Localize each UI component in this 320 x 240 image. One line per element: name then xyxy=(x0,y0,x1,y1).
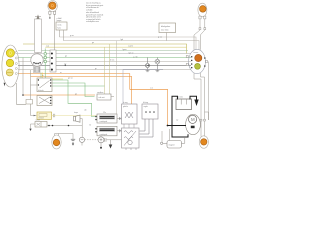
wire pickup to magneto box xyxy=(107,139,122,141)
tail lamp pin dots xyxy=(191,56,206,68)
tail lamp bottom exits xyxy=(194,62,209,137)
starter relay xyxy=(167,141,182,149)
tail lamp left squares xyxy=(186,56,207,66)
wire y65.3 dark xyxy=(18,64,191,66)
wire y69.6 gray xyxy=(18,69,191,71)
svg-text:gleichr: gleichr xyxy=(123,105,128,108)
headlamp shell xyxy=(48,1,58,12)
relay terminal circle xyxy=(163,142,167,144)
svg-text:12v: 12v xyxy=(103,112,106,114)
junction dot orange start xyxy=(22,94,24,96)
ground mid bottom xyxy=(110,140,112,145)
connector ticks right of pickup xyxy=(104,138,106,142)
svg-text:lampe: lampe xyxy=(57,20,62,22)
green g1 to coil 1 xyxy=(52,80,96,117)
pickup circle A xyxy=(79,137,84,142)
capacitor small box xyxy=(26,100,33,105)
tail lamp assembly oval xyxy=(189,49,206,73)
svg-text:sicher: sicher xyxy=(36,119,41,122)
wire y61.5 gray xyxy=(18,61,191,63)
cluster bulb 2 xyxy=(6,59,14,67)
starter feed cable xyxy=(168,125,187,127)
lamp top right connectors xyxy=(199,16,201,19)
svg-text:brems: brems xyxy=(194,51,199,54)
svg-text:schaltplan erm: schaltplan erm xyxy=(86,20,99,23)
svg-text:cdi unit: cdi unit xyxy=(99,96,105,99)
ignition switch xyxy=(37,53,39,55)
svg-text:hupe: hupe xyxy=(74,112,78,114)
pickup circle B xyxy=(98,137,104,143)
green terminal squares xyxy=(44,53,46,63)
svg-text:regler: regler xyxy=(144,105,149,108)
svg-text:la reg: la reg xyxy=(123,102,128,104)
green g2 to CDI xyxy=(52,83,95,97)
lamp top right shell xyxy=(198,3,207,17)
svg-text:schaltb: schaltb xyxy=(86,8,93,11)
lamp top right wires xyxy=(194,19,205,50)
svg-text:ge sw: ge sw xyxy=(68,77,73,79)
svg-text:l grn w: l grn w xyxy=(128,52,134,54)
long orange wire y95 xyxy=(23,94,95,96)
vertical x104.5 xyxy=(104,47,106,94)
indicator lamp symbol A xyxy=(145,58,149,72)
headlamp wire left drop xyxy=(49,14,51,17)
ignition coil 1 xyxy=(97,114,117,123)
relay box right xyxy=(159,23,176,33)
wire y40.6 xyxy=(64,41,200,50)
wire y37 xyxy=(60,37,197,50)
dashed wire between circles xyxy=(85,139,98,141)
license lamp wire ticks xyxy=(200,119,202,121)
indicator lamp symbol B xyxy=(155,58,160,72)
vertical x116.5 xyxy=(116,41,118,114)
rectifier box A xyxy=(122,104,138,124)
headlamp bulb xyxy=(49,2,56,9)
switch box 2 xyxy=(37,96,52,106)
svg-text:lichtsch: lichtsch xyxy=(38,89,44,92)
svg-text:zundspule: zundspule xyxy=(100,134,108,136)
notes text block xyxy=(86,2,104,24)
wire y53.5 gray xyxy=(18,53,191,55)
park lamp bottom center xyxy=(52,135,61,149)
switch box 1 xyxy=(37,78,52,92)
battery positive to ground arrow xyxy=(190,96,197,99)
park lamp wire to ground xyxy=(55,134,73,140)
left frame vertical wire xyxy=(30,70,32,116)
arrow marks on dark wire xyxy=(64,65,67,67)
headlamp connector right xyxy=(54,11,56,14)
relay verticals xyxy=(161,131,163,142)
svg-text:lichtsp: lichtsp xyxy=(143,101,148,104)
instrument cluster oval xyxy=(2,45,19,87)
connector block xyxy=(50,50,56,72)
starter motor M xyxy=(189,115,197,123)
license lamp xyxy=(199,136,208,148)
svg-text:s gr: s gr xyxy=(46,45,49,47)
wire band horizontals xyxy=(18,37,199,126)
tail lamp bulb xyxy=(195,54,202,61)
cluster bulb 1 xyxy=(6,49,14,57)
ignition coil 2 xyxy=(97,126,117,136)
vertical connector wires center xyxy=(105,41,117,114)
svg-text:s or: s or xyxy=(150,87,153,89)
regulator box B xyxy=(142,104,158,119)
fuse box right wire xyxy=(47,125,82,127)
cluster pin circles xyxy=(15,52,17,75)
svg-text:gn: gn xyxy=(65,56,67,58)
wire y44 olive xyxy=(23,44,187,54)
fuse box lower xyxy=(35,122,47,128)
battery negative cable xyxy=(172,96,188,137)
wire y79 yellow xyxy=(43,78,64,80)
svg-text:12v 21w: 12v 21w xyxy=(161,30,169,32)
cluster bulb 3 xyxy=(6,69,13,76)
tail lamp bulb 2 xyxy=(195,63,201,69)
wire y47.2 pale yellow xyxy=(45,46,187,48)
svg-text:l gb: l gb xyxy=(120,39,123,41)
switch pin block xyxy=(34,67,41,73)
wire labels xyxy=(42,35,179,121)
magneto box C xyxy=(122,128,140,148)
spark plug 2 xyxy=(117,130,119,132)
svg-text:hi-lo: hi-lo xyxy=(57,27,61,29)
relay right drop xyxy=(166,33,168,41)
headlamp wire right drop xyxy=(54,14,56,50)
svg-text:l grau: l grau xyxy=(122,49,127,51)
horn xyxy=(74,115,81,122)
fuse holder cap xyxy=(36,14,39,19)
svg-text:br ws: br ws xyxy=(110,60,114,62)
lamp top right bulb xyxy=(200,6,207,13)
svg-text:ge: ge xyxy=(75,93,77,95)
relay box left xyxy=(56,22,67,30)
fuse holder column xyxy=(35,19,42,53)
wire y76.5 orange turning down xyxy=(31,77,132,105)
headlamp connector left xyxy=(49,11,51,14)
cluster ground mark xyxy=(4,83,6,87)
ground right of park lamp xyxy=(71,139,75,142)
relay left drops xyxy=(59,30,61,37)
horn feed xyxy=(80,119,82,138)
svg-text:zundbox: zundbox xyxy=(97,92,104,94)
green feeder vertical xyxy=(44,49,46,79)
spark plug 1 xyxy=(117,118,119,120)
flasher out ticks xyxy=(52,114,54,117)
license lamp right edge wire xyxy=(205,112,209,120)
svg-text:a 2 br: a 2 br xyxy=(133,57,138,59)
starter brushes xyxy=(191,126,195,129)
CDI unit xyxy=(97,94,111,100)
svg-text:magnet: magnet xyxy=(169,143,175,146)
vertical x109.5 xyxy=(109,44,111,94)
green wires to CDI and coil xyxy=(52,80,105,117)
svg-text:s gr br: s gr br xyxy=(128,45,133,47)
wire y57.5 green xyxy=(18,57,191,59)
flasher box xyxy=(37,112,52,119)
battery xyxy=(176,99,192,110)
wire y73.6 orange xyxy=(18,74,168,126)
lamp wire connector ticks xyxy=(199,28,201,30)
flasher yellow wire xyxy=(52,115,105,117)
svg-text:blinkgeber: blinkgeber xyxy=(161,26,171,28)
green g3 xyxy=(52,85,105,87)
svg-text:zundspule: zundspule xyxy=(100,121,108,123)
svg-text:g sw: g sw xyxy=(158,37,163,39)
flasher feed arrow xyxy=(31,115,34,117)
svg-text:M: M xyxy=(191,117,195,122)
regulator output wires xyxy=(140,119,154,137)
relay right wire xyxy=(182,137,185,143)
fuse box left wire and ground xyxy=(31,124,36,129)
cluster down wires xyxy=(17,83,27,104)
svg-text:ge: ge xyxy=(92,42,94,44)
switch drops xyxy=(40,73,42,79)
switch box 1 left stub xyxy=(31,84,38,86)
starter body oval xyxy=(186,114,201,134)
wire y50.6 gray-green xyxy=(18,50,188,52)
rear harness enclosure xyxy=(123,69,163,121)
